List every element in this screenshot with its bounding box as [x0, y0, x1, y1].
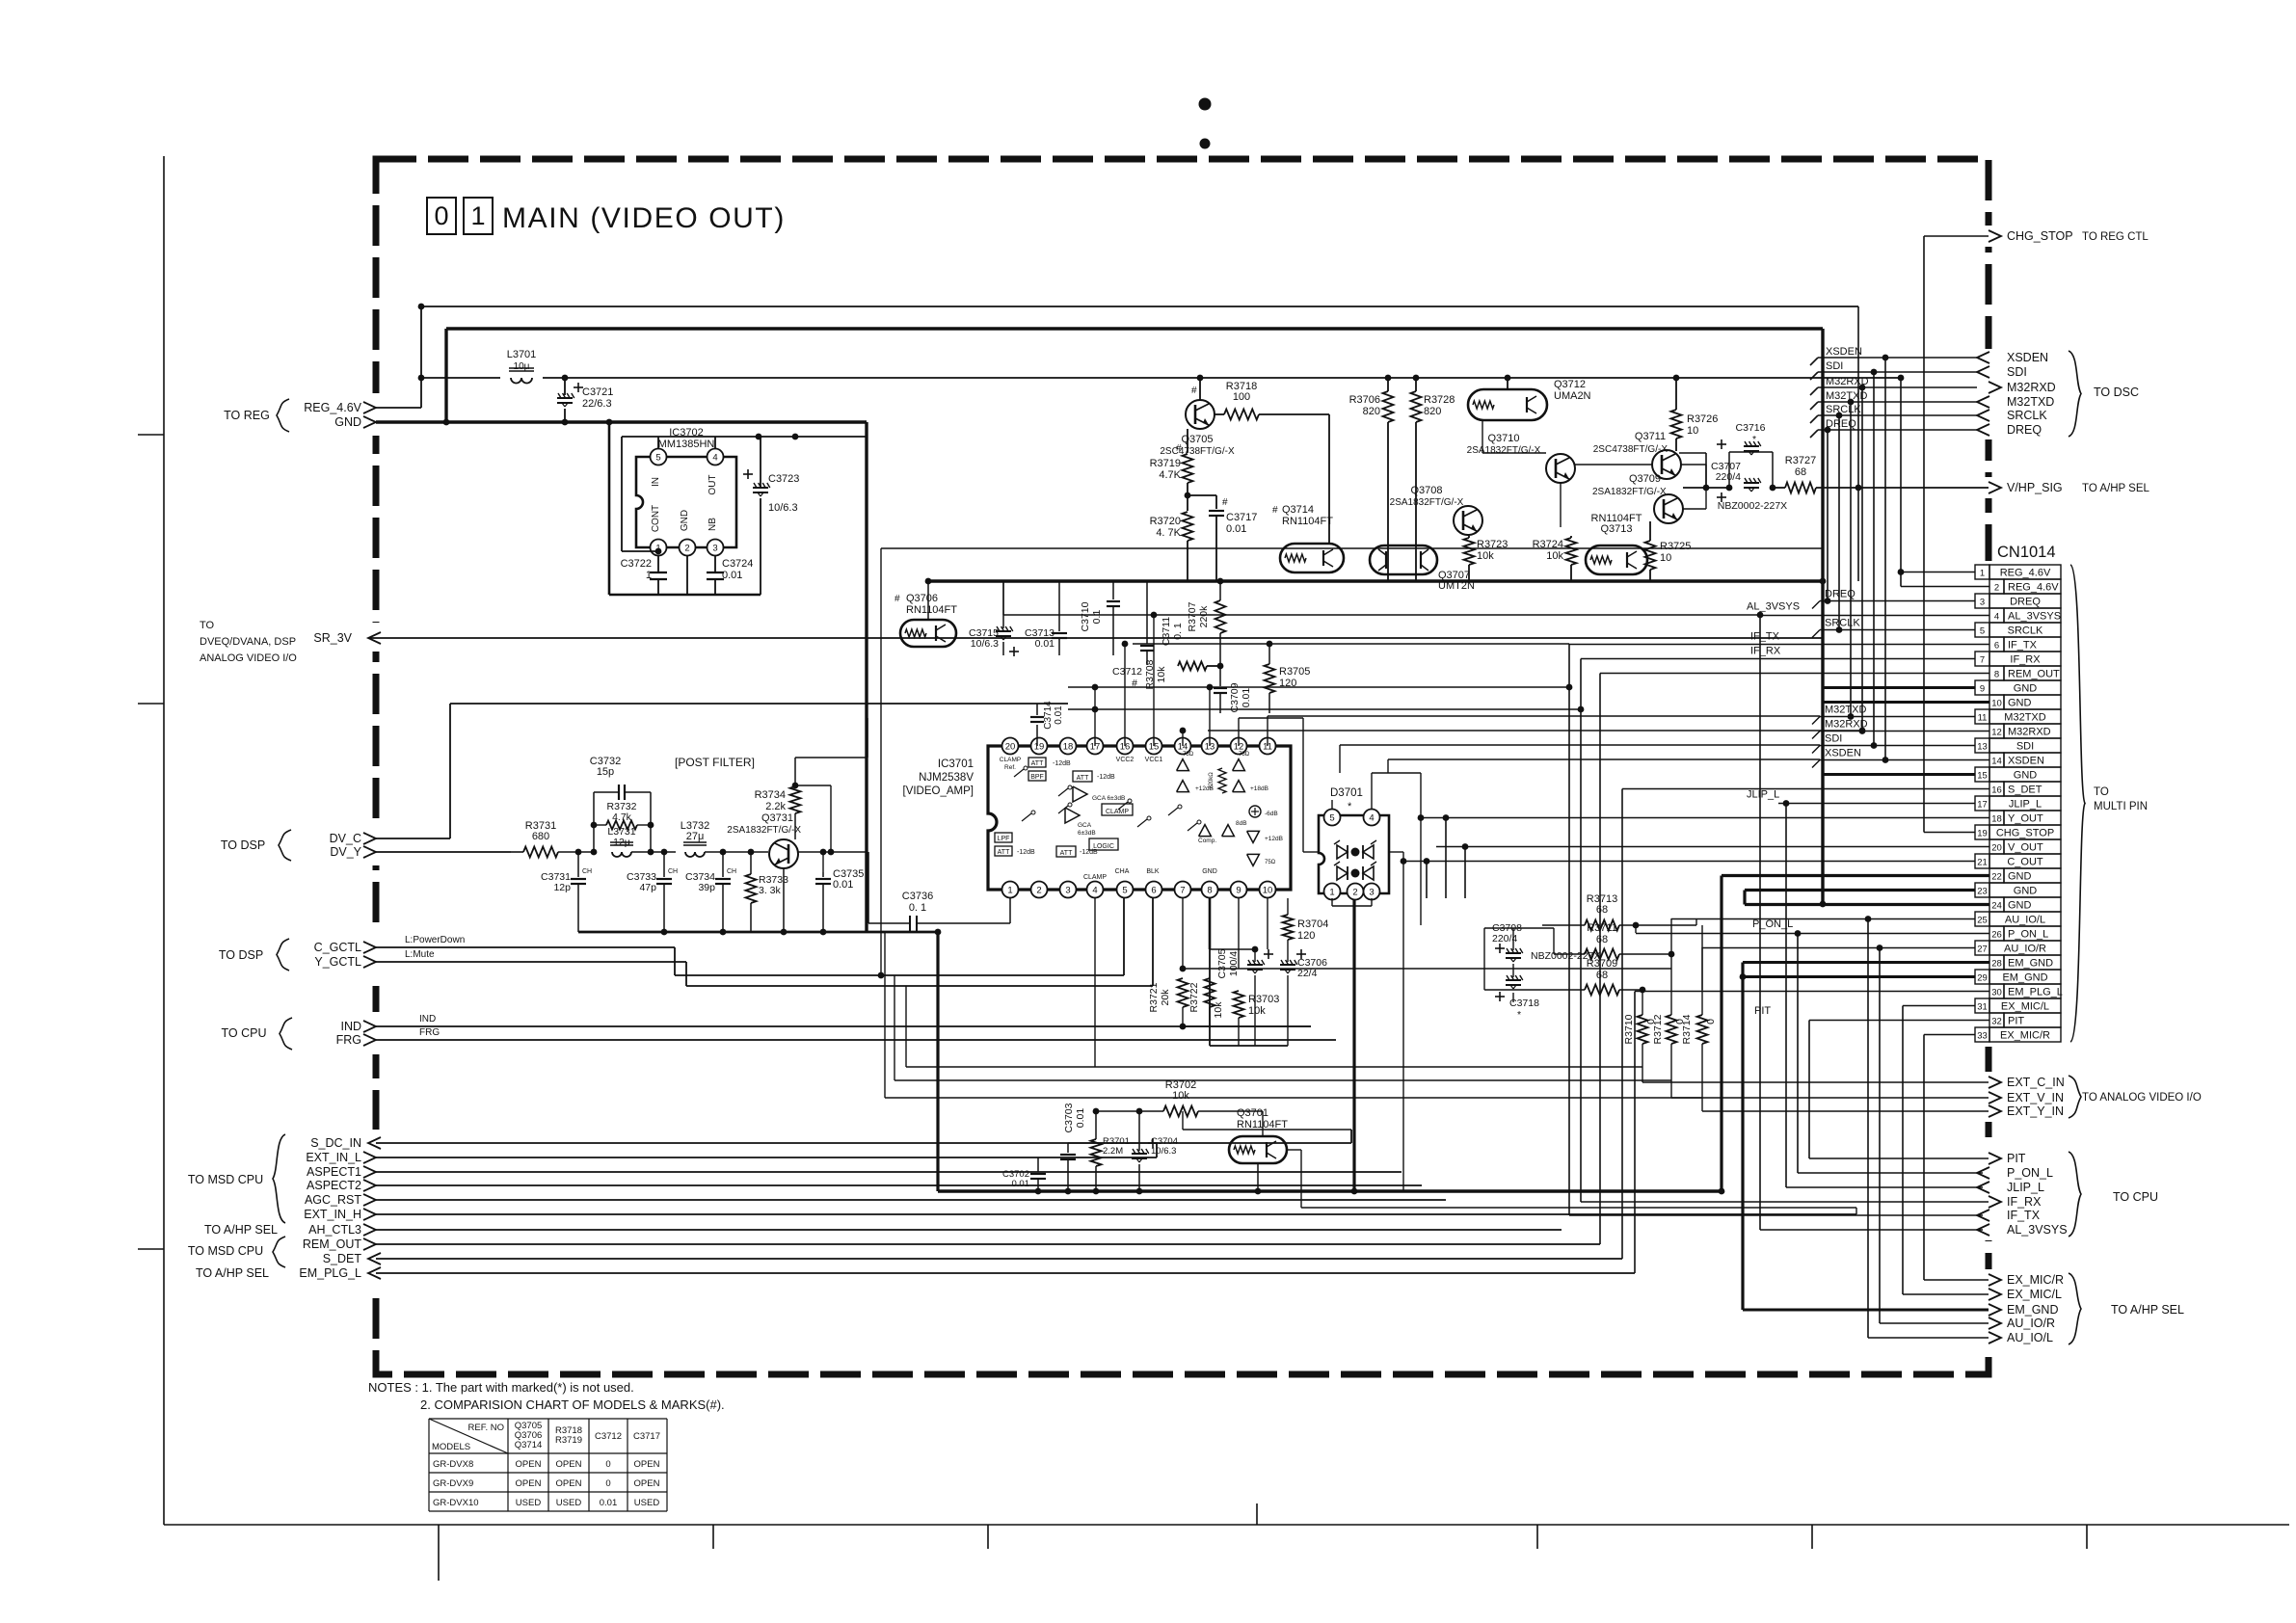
wire y1107 [906, 1066, 1642, 1068]
svg-text:10: 10 [1991, 699, 2002, 709]
svg-text:9: 9 [1236, 885, 1241, 895]
svg-text:OPEN: OPEN [634, 1478, 660, 1489]
node AH_CTL3 left [363, 1224, 376, 1236]
transistor Q3701 dual [1229, 1136, 1287, 1163]
svg-text:5: 5 [1122, 885, 1127, 895]
svg-text:R3720: R3720 [1150, 516, 1181, 527]
wire XSDEN pin feed [1820, 759, 1989, 761]
IC3701 pin 12 [1231, 738, 1247, 755]
svg-text:R3725: R3725 [1660, 541, 1691, 552]
CN1014 pin 13 SDI [1975, 738, 1989, 753]
diode D3701 pin3 [1364, 884, 1380, 900]
svg-text:CH: CH [668, 868, 678, 875]
capacitor C3706 [1281, 960, 1284, 965]
svg-text:10: 10 [1660, 552, 1671, 564]
svg-text:16: 16 [1991, 785, 2002, 796]
IC3701 pin 4 [1087, 882, 1104, 898]
svg-text:EM_PLG_L: EM_PLG_L [299, 1266, 361, 1280]
transistor Q3709 [1654, 494, 1683, 523]
svg-text:Q3711: Q3711 [1635, 431, 1666, 442]
svg-text:USED: USED [516, 1498, 542, 1508]
svg-text:V/HP_SIG: V/HP_SIG [2007, 481, 2063, 494]
IC3701 pin 3 [1060, 882, 1077, 898]
wire GND pin23 [1745, 889, 1975, 891]
svg-text:2: 2 [1352, 887, 1357, 897]
svg-text:#: # [1272, 505, 1278, 516]
wire y788 feed [1388, 758, 1820, 760]
transistor Q3705 [1186, 400, 1215, 429]
svg-text:EXT_IN_H: EXT_IN_H [304, 1208, 361, 1221]
wire Y_GCTL run [376, 961, 686, 963]
resistor R3734 [790, 786, 801, 813]
frame tick x1595 [1536, 1525, 1538, 1549]
CN1014 pin 7 IF_RX [1975, 652, 1989, 666]
svg-text:0.01: 0.01 [1226, 523, 1246, 535]
svg-text:24: 24 [1991, 901, 2002, 912]
svg-text:D3701: D3701 [1330, 787, 1363, 799]
svg-text:LOGIC: LOGIC [1093, 843, 1114, 850]
wire GND bus y1236 [938, 1189, 1722, 1193]
svg-text:C3717: C3717 [633, 1431, 660, 1442]
svg-text:EM_GND: EM_GND [2002, 972, 2047, 984]
svg-text:L3701: L3701 [507, 349, 537, 360]
svg-text:27: 27 [1977, 945, 1988, 955]
svg-text:+18dB: +18dB [1250, 785, 1268, 792]
node DV_Y [363, 846, 376, 858]
resistor R3726 [1671, 410, 1682, 439]
svg-text:820: 820 [1363, 406, 1380, 417]
svg-text:EXT_V_IN: EXT_V_IN [2007, 1091, 2064, 1104]
resistor R3725 [1645, 541, 1656, 570]
svg-text:14: 14 [1991, 757, 2002, 767]
wire pin2 feed [1901, 586, 1989, 588]
svg-text:OPEN: OPEN [556, 1459, 582, 1470]
svg-text:EX_MIC/R: EX_MIC/R [2000, 1030, 2050, 1042]
wire SDI riser [1873, 372, 1875, 746]
svg-text:0.01: 0.01 [600, 1498, 618, 1508]
IC3701 pin 1 [1002, 882, 1019, 898]
resistor R3713 [1585, 920, 1619, 931]
IC3701 pin 19 [1031, 738, 1048, 755]
frame tick x1880 [1811, 1525, 1813, 1549]
svg-text:GND: GND [1202, 868, 1217, 875]
wire EXT_IN_H riser [1855, 1208, 1857, 1214]
inductor L3701 [511, 378, 532, 384]
svg-text:C3723: C3723 [768, 473, 799, 485]
net Y_OUT [1421, 817, 1989, 819]
svg-text:PIT: PIT [2008, 1016, 2024, 1027]
wire EXT_C_IN [1642, 1081, 1989, 1083]
svg-text:R3734: R3734 [755, 789, 786, 801]
svg-text:25: 25 [1977, 916, 1988, 926]
svg-text:GND: GND [2014, 683, 2038, 695]
CN1014 pin 27 AU_IO/R [1975, 941, 1989, 955]
svg-text:XSDEN: XSDEN [2008, 756, 2044, 767]
wire REG rail y392 through L3701 [421, 377, 500, 379]
svg-text:7: 7 [1180, 885, 1185, 895]
wire SRCLK pin feed [1820, 629, 1975, 631]
svg-text:9: 9 [1980, 684, 1985, 695]
diode D3701 [1319, 815, 1389, 893]
IC U IC3702 regulator [636, 457, 736, 547]
svg-text:MM1385HN: MM1385HN [658, 439, 715, 450]
svg-text:TO A/HP SEL: TO A/HP SEL [196, 1266, 269, 1280]
wire DV_Y run [376, 851, 511, 853]
IC3701 pin 13 [1202, 738, 1218, 755]
svg-text:22/4: 22/4 [1297, 968, 1318, 979]
svg-text:NBZ0002-227X: NBZ0002-227X [1718, 500, 1787, 512]
wire XSDEN top run [1818, 357, 1977, 359]
IC3702 pin 2 [680, 540, 696, 556]
wire C_GCTL run [376, 946, 675, 948]
node SDI right [1977, 366, 1989, 378]
wire GND pin24 [1745, 903, 1989, 906]
svg-text:C3712: C3712 [1112, 666, 1142, 678]
wire ASPECT1 run [376, 1171, 1402, 1173]
wire GND pin9 [1823, 686, 1975, 689]
CN1014 pin 5 SRCLK [1975, 623, 1989, 637]
svg-text:4.7K: 4.7K [1159, 469, 1181, 481]
svg-text:C3710: C3710 [1080, 601, 1091, 631]
capacitor C3718 [1507, 975, 1509, 980]
node DV_C [363, 833, 376, 844]
svg-text:11: 11 [1978, 713, 1988, 724]
node IF_TX right [1977, 1210, 1989, 1221]
wire GND pin15 [1823, 773, 1975, 776]
capacitor C3712 [1146, 581, 1148, 644]
IC3702 pin 3 [707, 540, 724, 556]
svg-text:2.2M: 2.2M [1103, 1146, 1123, 1157]
svg-text:0.01: 0.01 [1241, 688, 1252, 708]
svg-text:6±3dB: 6±3dB [1078, 830, 1096, 837]
svg-text:DREQ: DREQ [2010, 597, 2041, 608]
svg-text:REM_OUT: REM_OUT [2008, 669, 2060, 680]
svg-text:R3727: R3727 [1785, 455, 1816, 466]
svg-text:3: 3 [1980, 598, 1985, 608]
wire D3701 stubs [1303, 851, 1319, 853]
svg-text:4: 4 [1369, 812, 1374, 823]
svg-text:ANALOG VIDEO I/O: ANALOG VIDEO I/O [200, 652, 297, 664]
wire M32RXD riser [1861, 387, 1863, 732]
wire pin4 up [714, 437, 716, 448]
capacitor C3711 pin [1094, 709, 1096, 746]
svg-text:R3719: R3719 [555, 1435, 582, 1446]
svg-text:19: 19 [1034, 741, 1045, 752]
brace TO A/HP SEL [2069, 1273, 2081, 1344]
svg-text:Y_GCTL: Y_GCTL [314, 955, 361, 969]
wire y736 feed [1068, 708, 1581, 710]
CN1014 pin 30 EM_PLG_L [1989, 984, 2004, 998]
svg-text:IF_RX: IF_RX [2010, 654, 2041, 666]
svg-text:NOTES : 1. The part with marke: NOTES : 1. The part with marked(*) is no… [368, 1380, 634, 1395]
svg-text:R3706: R3706 [1349, 394, 1380, 406]
svg-text:33: 33 [1977, 1031, 1988, 1042]
svg-text:31: 31 [1977, 1002, 1988, 1013]
svg-text:C3712: C3712 [595, 1431, 622, 1442]
svg-text:CONT: CONT [651, 505, 661, 532]
IC3701 pin 16 [1117, 738, 1134, 755]
capacitor C3715 [1002, 581, 1004, 628]
svg-text:4: 4 [712, 452, 717, 463]
svg-text:EXT_Y_IN: EXT_Y_IN [2007, 1104, 2064, 1118]
svg-text:22/6.3: 22/6.3 [582, 398, 612, 410]
wire DREQ riser [1827, 430, 1829, 601]
node CHG_STOP [1989, 230, 2001, 242]
CN1014 pin 29 EM_GND [1975, 970, 1989, 984]
wire cont loop [621, 437, 623, 551]
transistor Q3706 dual [900, 620, 956, 647]
svg-text:R3726: R3726 [1687, 413, 1718, 425]
wire pin19 feed [1924, 832, 1975, 834]
wire GND trunk x1891 [1821, 329, 1824, 904]
wire GND D3701 riser x1405 [1352, 898, 1355, 1191]
svg-text:DVEQ/DVANA, DSP: DVEQ/DVANA, DSP [200, 636, 296, 648]
svg-text:2SC4738FT/G/-X: 2SC4738FT/G/-X [1160, 446, 1235, 457]
svg-text:CH: CH [582, 868, 592, 875]
svg-text:0.01: 0.01 [1012, 1179, 1030, 1189]
node AU_IO/R right [1989, 1317, 2001, 1329]
svg-text:GND: GND [2008, 871, 2032, 883]
svg-text:SDI: SDI [1825, 733, 1842, 745]
wire q3731 coll [794, 758, 796, 771]
resistor R3701 [1091, 1139, 1102, 1166]
svg-text:15p: 15p [597, 766, 614, 778]
svg-text:75Ω: 75Ω [1183, 752, 1194, 758]
IC3701 pin 14 [1175, 738, 1191, 755]
sheet frame left edge [163, 156, 165, 1525]
net AU_IO/R [1702, 947, 1975, 949]
svg-text:#: # [894, 594, 900, 604]
svg-text:Q3714: Q3714 [515, 1440, 543, 1450]
svg-text:Q3706: Q3706 [906, 593, 938, 604]
svg-text:2: 2 [684, 543, 689, 553]
IC U IC3701 video amp [988, 746, 1291, 890]
svg-text:AU_IO/R: AU_IO/R [2007, 1317, 2055, 1330]
svg-text:S_DC_IN: S_DC_IN [310, 1136, 361, 1150]
svg-text:4: 4 [1994, 612, 1999, 623]
wire r3713 right [1695, 918, 1697, 925]
svg-text:XSDEN: XSDEN [1825, 748, 1861, 759]
svg-text:C3716: C3716 [1736, 422, 1766, 434]
capacitor C3735 [822, 872, 824, 877]
wire pin1 feed [1901, 572, 1975, 573]
IC3701 pin 5 [1117, 882, 1134, 898]
svg-text:120: 120 [1297, 930, 1315, 942]
wire y1121 [894, 1079, 1671, 1081]
wire M32TXD top run [1818, 401, 1977, 403]
resistor R3718 [1224, 410, 1259, 420]
svg-text:+12dB: +12dB [1265, 836, 1283, 842]
svg-text:21: 21 [1977, 858, 1988, 868]
svg-text:3: 3 [1369, 887, 1374, 897]
svg-text:20k: 20k [1160, 989, 1171, 1006]
resistor R3705 [1265, 664, 1275, 693]
resistor R3711 [1585, 949, 1619, 960]
wire y569 loop [881, 547, 1823, 549]
svg-text:AU_IO/L: AU_IO/L [2005, 915, 2045, 926]
CN1014 pin 16 S_DET [1989, 782, 2004, 796]
transistor Q3731 [769, 839, 798, 868]
diode D3701 pin5 [1324, 810, 1341, 826]
sheet frame bottom edge [164, 1524, 2289, 1526]
node PIT right [1989, 1153, 2001, 1164]
IC3701 pin 10 [1260, 882, 1276, 898]
svg-text:8: 8 [1207, 885, 1212, 895]
svg-text:REF. NO: REF. NO [468, 1423, 504, 1433]
node GND left [363, 416, 376, 428]
wire pin15 up [1153, 615, 1155, 746]
wire pin7 down [1182, 898, 1184, 969]
net IF_RX [1581, 658, 1975, 660]
CN1014 pin 33 EX_MIC/R [1975, 1027, 1989, 1042]
capacitor C3721 [564, 378, 566, 395]
svg-text:1: 1 [646, 570, 652, 581]
IC3701 pin 8 [1202, 882, 1218, 898]
svg-text:6: 6 [1994, 641, 1999, 652]
svg-text:0.01: 0.01 [833, 879, 853, 891]
svg-text:TO DSC: TO DSC [2094, 386, 2139, 399]
IC3702 pin 5 [651, 449, 667, 466]
svg-text:R3703: R3703 [1248, 994, 1279, 1005]
svg-text:TO A/HP SEL: TO A/HP SEL [204, 1223, 278, 1237]
node EX_MIC/L right [1989, 1289, 2001, 1300]
CN1014 pin 11 M32TXD [1975, 709, 1989, 724]
svg-text:TO DSP: TO DSP [219, 948, 263, 962]
CN1014 pin 15 GND [1975, 767, 1989, 782]
resistor R3733 [746, 874, 757, 903]
svg-text:C3722: C3722 [621, 558, 652, 570]
net V_OUT [1436, 846, 1989, 848]
svg-text:AL_3VSYS: AL_3VSYS [2007, 1223, 2068, 1237]
svg-text:#: # [1176, 443, 1182, 454]
brace TO DSC [2069, 351, 2081, 437]
wire REG_4.6V entry [376, 407, 421, 409]
svg-text:2SA1832FT/G/-X: 2SA1832FT/G/-X [1467, 445, 1541, 456]
brace TO CPU [2069, 1152, 2081, 1237]
node EXT_V_IN [1989, 1092, 2001, 1104]
wire q-cluster links [1482, 420, 1483, 453]
svg-text:0.1: 0.1 [1091, 610, 1103, 625]
node EX_MIC/R right [1989, 1274, 2001, 1286]
svg-text:PIT: PIT [2007, 1152, 2026, 1165]
wire R3718 down [1328, 414, 1330, 544]
CN1014 pin 14 XSDEN [1989, 753, 2004, 767]
IC3701 switches [1014, 769, 1024, 777]
CN1014 pin 24 GND [1989, 897, 2004, 912]
transistor Q3708 [1454, 506, 1482, 535]
svg-text:DV_Y: DV_Y [330, 845, 361, 859]
svg-text:IN: IN [651, 477, 661, 487]
svg-text:CHG_STOP: CHG_STOP [2007, 229, 2073, 243]
wire pin16 up [1124, 644, 1126, 746]
svg-text:R3719: R3719 [1150, 458, 1181, 469]
CN1014 pin 26 P_ON_L [1989, 926, 2004, 941]
transistor Q3713 dual [1586, 545, 1647, 574]
resistor R3732 [606, 821, 637, 830]
node C_GCTL [363, 942, 376, 953]
svg-text:AH_CTL3: AH_CTL3 [308, 1223, 361, 1237]
svg-text:EM_GND: EM_GND [2008, 958, 2053, 970]
wire AL_3VSYS feed [1003, 614, 1760, 616]
svg-text:32: 32 [1991, 1017, 2002, 1027]
svg-text:0.01: 0.01 [1054, 705, 1064, 725]
svg-text:R3721: R3721 [1148, 982, 1160, 1012]
svg-text:75Ω: 75Ω [1239, 752, 1250, 758]
svg-text:Q3705: Q3705 [1181, 434, 1213, 445]
net REM_OUT [1600, 673, 1989, 675]
inductor L3731 [612, 852, 631, 857]
svg-text:EXT_IN_L: EXT_IN_L [306, 1151, 361, 1164]
resistor R3727 [1785, 483, 1816, 493]
svg-text:2SC4738FT/G/-X: 2SC4738FT/G/-X [1593, 444, 1669, 455]
net AU_IO/L [1671, 918, 1975, 920]
svg-text:3: 3 [1065, 885, 1070, 895]
wire EM_PLG_L run [376, 1272, 1635, 1274]
wire thick rail y341 [446, 327, 1823, 330]
brace TO ANALOG VIDEO I/O [2069, 1076, 2081, 1118]
svg-text:26: 26 [1991, 930, 2002, 941]
svg-text:820: 820 [1424, 406, 1441, 417]
svg-text:10k: 10k [1172, 1090, 1189, 1102]
node S_DET left [368, 1253, 381, 1264]
CN1014 pin 32 PIT [1989, 1013, 2004, 1027]
svg-text:#: # [1191, 386, 1197, 396]
wire M32TXD pin feed [1820, 716, 1975, 718]
svg-text:-12dB: -12dB [1017, 849, 1035, 856]
capacitor C3734 [722, 852, 724, 877]
svg-text:M32RXD: M32RXD [2007, 381, 2056, 394]
wire SR_3V run [368, 637, 1822, 639]
CN1014 pin 17 JLIP_L [1975, 796, 1989, 811]
svg-text:IF_RX: IF_RX [1750, 646, 1781, 657]
CN1014 pin 10 GND [1989, 695, 2004, 709]
svg-text:ASPECT1: ASPECT1 [307, 1165, 361, 1179]
frame tick x740 [712, 1525, 714, 1549]
svg-text:P_ON_L: P_ON_L [2008, 929, 2048, 941]
wire gnd bus IC3702 [609, 594, 761, 597]
svg-text:UMA2N: UMA2N [1554, 390, 1591, 402]
svg-text:3. 3k: 3. 3k [759, 885, 782, 896]
svg-text:220k: 220k [1198, 605, 1210, 628]
wire S_DET run [376, 1258, 1622, 1260]
svg-text:CLAMP: CLAMP [1000, 757, 1021, 763]
svg-text:3: 3 [712, 543, 717, 553]
svg-text:SR_3V: SR_3V [313, 631, 352, 645]
node IF_RX right [1989, 1196, 2001, 1208]
wire EXT_IN_L run [376, 1157, 1157, 1158]
CN1014 pin 9 GND [1975, 680, 1989, 695]
svg-text:CHG_STOP: CHG_STOP [1996, 828, 2054, 839]
IC3701 pin 9 [1231, 882, 1247, 898]
svg-text:JLIP_L: JLIP_L [2007, 1181, 2044, 1194]
svg-text:USED: USED [556, 1498, 582, 1508]
svg-text:SRCLK: SRCLK [1826, 404, 1861, 415]
CN1014 pin 22 GND [1989, 868, 2004, 883]
svg-text:ATT: ATT [998, 849, 1010, 856]
svg-text:L:Mute: L:Mute [405, 949, 435, 960]
resistor R3728 [1411, 391, 1422, 422]
registration dot upper [1199, 98, 1212, 111]
svg-text:12: 12 [1991, 728, 2002, 738]
frame tick x1025 [987, 1525, 989, 1549]
svg-text:0. 1: 0. 1 [909, 902, 926, 914]
svg-text:SDI: SDI [2016, 741, 2034, 753]
wire SDI pin feed [1820, 745, 1975, 747]
svg-text:0.01: 0.01 [1075, 1108, 1086, 1129]
svg-text:0: 0 [605, 1478, 610, 1489]
net C_OUT [1403, 861, 1975, 863]
svg-text:EX_MIC/R: EX_MIC/R [2007, 1273, 2064, 1287]
